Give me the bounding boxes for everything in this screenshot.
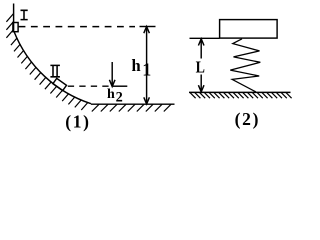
svg-text:(2): (2) <box>235 109 261 129</box>
block I <box>13 23 18 32</box>
L top arrowhead <box>198 39 204 46</box>
label I <box>21 10 28 19</box>
hatching ground figure 1 <box>92 104 171 111</box>
spring <box>230 39 260 92</box>
h2 down arrowhead <box>109 80 115 87</box>
reference line left of block <box>190 37 220 39</box>
wall <box>13 4 15 32</box>
h1 top tick <box>140 26 156 28</box>
label II <box>50 65 60 76</box>
hatching wall and curve <box>6 14 87 111</box>
ground line figure 2 <box>189 91 291 93</box>
dashed line from block I <box>19 26 135 28</box>
hatching ground figure 2 <box>190 93 292 99</box>
ground figure 1 <box>91 103 175 105</box>
block on spring figure 2 <box>220 20 278 38</box>
svg-text:2: 2 <box>116 90 123 106</box>
block II <box>53 78 67 90</box>
h1 dimension line <box>146 27 148 105</box>
h2 down arrow line <box>111 62 113 87</box>
h2 right tick <box>113 85 127 87</box>
dashed line from block II <box>68 85 109 87</box>
h1 top arrowhead <box>144 27 150 34</box>
svg-text:h: h <box>107 87 115 102</box>
h1 bottom arrowhead <box>144 97 150 104</box>
white gap for L label <box>195 59 206 75</box>
svg-text:1: 1 <box>142 59 151 79</box>
L dimension line <box>200 39 202 92</box>
L bottom arrowhead <box>198 85 204 92</box>
curved slope <box>14 32 91 104</box>
svg-text:L: L <box>196 58 205 77</box>
svg-text:h: h <box>132 56 141 75</box>
svg-text:(1): (1) <box>65 111 91 131</box>
